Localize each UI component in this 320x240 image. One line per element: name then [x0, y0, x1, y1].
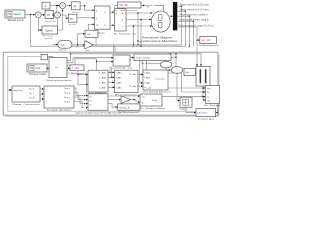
svg-text:Speed: Speed [45, 29, 53, 32]
svg-text:dq0 abc: dq0 abc [97, 33, 106, 35]
svg-text:Torq_c: Torq_c [64, 97, 70, 99]
svg-text:wm: wm [142, 97, 146, 99]
svg-text:IL_ABC: IL_ABC [99, 76, 107, 79]
svg-text:Stator current is_a (A) mes: Stator current is_a (A) mes [180, 4, 210, 7]
svg-text:To Workspace1: To Workspace1 [119, 111, 141, 114]
svg-text:I_ABC: I_ABC [144, 77, 151, 80]
svg-text:Fc_Scope setting: Fc_Scope setting [141, 107, 166, 110]
svg-text:I_ABC: I_ABC [144, 72, 151, 75]
svg-text:I_ABC: I_ABC [115, 86, 122, 89]
svg-text:Tor_S: Tor_S [29, 89, 35, 91]
svg-text:[?] Contin: [?] Contin [198, 112, 208, 115]
svg-text:Tc: Tc [89, 105, 91, 107]
svg-text:To Workspace2: To Workspace2 [199, 44, 220, 47]
svg-text:Scop: Scop [152, 100, 158, 102]
svg-text:Power_Connection: Power_Connection [13, 103, 41, 106]
svg-text:I_ABC: I_ABC [115, 81, 122, 84]
svg-text:simout_Te: simout_Te [119, 106, 130, 109]
svg-text:Pu_abc: Pu_abc [129, 86, 136, 88]
svg-text:I_ABC: I_ABC [115, 76, 122, 79]
svg-text:Fc) Vehicle Measure: Fc) Vehicle Measure [144, 91, 172, 94]
svg-text:IL_ABC: IL_ABC [99, 71, 107, 74]
svg-text:Vdc: Vdc [185, 72, 189, 74]
svg-text:wm_rpm: wm_rpm [202, 39, 211, 42]
svg-text:PI: PI [74, 4, 77, 8]
svg-text:Electromagnetic torque Te (N*m: Electromagnetic torque Te (N*m) [178, 25, 213, 28]
svg-text:Id Cont: Id Cont [72, 11, 79, 14]
svg-text:Iq Cont: Iq Cont [69, 23, 76, 26]
svg-text:Torq_d: Torq_d [64, 102, 70, 104]
svg-text:Tm: Tm [55, 67, 58, 69]
svg-text:scope settings: scope settings [136, 57, 151, 60]
svg-text:powergui: powergui [198, 118, 215, 121]
svg-text:Torq_b: Torq_b [64, 93, 71, 95]
svg-text:Rotor angle thetam (rad) m: Rotor angle thetam (rad) m [180, 19, 209, 22]
svg-text:Pu_abc: Pu_abc [129, 74, 136, 76]
svg-text:Torque input: Torque input [29, 73, 46, 76]
svg-text:Speed input: Speed input [8, 19, 24, 22]
svg-text:I_measure: I_measure [155, 77, 166, 80]
svg-text:Three-phase drive: Three-phase drive [46, 79, 73, 82]
svg-text:Synchronous Machine: Synchronous Machine [137, 39, 179, 43]
svg-text:Stator current is_b (A) mes: Stator current is_b (A) mes [180, 9, 210, 12]
svg-text:I_ABC: I_ABC [115, 71, 122, 74]
svg-text:IL_ABC: IL_ABC [99, 86, 107, 89]
svg-text:Tor_B: Tor_B [29, 98, 35, 100]
svg-text:I_ABC: I_ABC [144, 82, 151, 85]
svg-text:signal conditioning TOYOTA inv: signal conditioning TOYOTA inverter [75, 111, 121, 114]
svg-text:Speed: Speed [13, 12, 21, 16]
svg-text:Fc Inverter sw: Fc Inverter sw [114, 33, 137, 36]
svg-text:Torq_a: Torq_a [64, 88, 71, 90]
svg-text:Vab Vab: Vab Vab [119, 5, 128, 7]
svg-text:wm: wm [207, 88, 211, 90]
svg-text:IL_ABC: IL_ABC [99, 81, 107, 84]
svg-text:Converter sig: Converter sig [113, 66, 133, 69]
svg-text:PI: PI [47, 13, 50, 17]
svg-text:T_a2rS: T_a2rS [72, 67, 80, 70]
svg-text:Po_abc: Po_abc [144, 88, 151, 90]
svg-text:Permanent Magnet: Permanent Magnet [142, 35, 172, 39]
svg-text:Torque division: Torque division [47, 108, 73, 111]
svg-text:Fc Voltmeter: Fc Voltmeter [114, 9, 139, 12]
svg-text:PI: PI [70, 17, 73, 21]
svg-text:speed fbk: speed fbk [44, 38, 53, 40]
svg-text:Mag_Bus: Mag_Bus [13, 90, 22, 92]
svg-text:m: m [147, 6, 149, 8]
svg-text:Speed Cont: Speed Cont [45, 20, 56, 23]
svg-text:Discrete: Discrete [59, 49, 67, 52]
svg-text:Tor_T: Tor_T [29, 93, 35, 95]
svg-text:rpm: rpm [86, 49, 90, 52]
svg-text:Torq: Torq [35, 66, 41, 70]
svg-text:Rate transit: Rate transit [42, 35, 53, 38]
svg-text:Rotor speed wm (rad/s) m: Rotor speed wm (rad/s) m [180, 14, 208, 17]
